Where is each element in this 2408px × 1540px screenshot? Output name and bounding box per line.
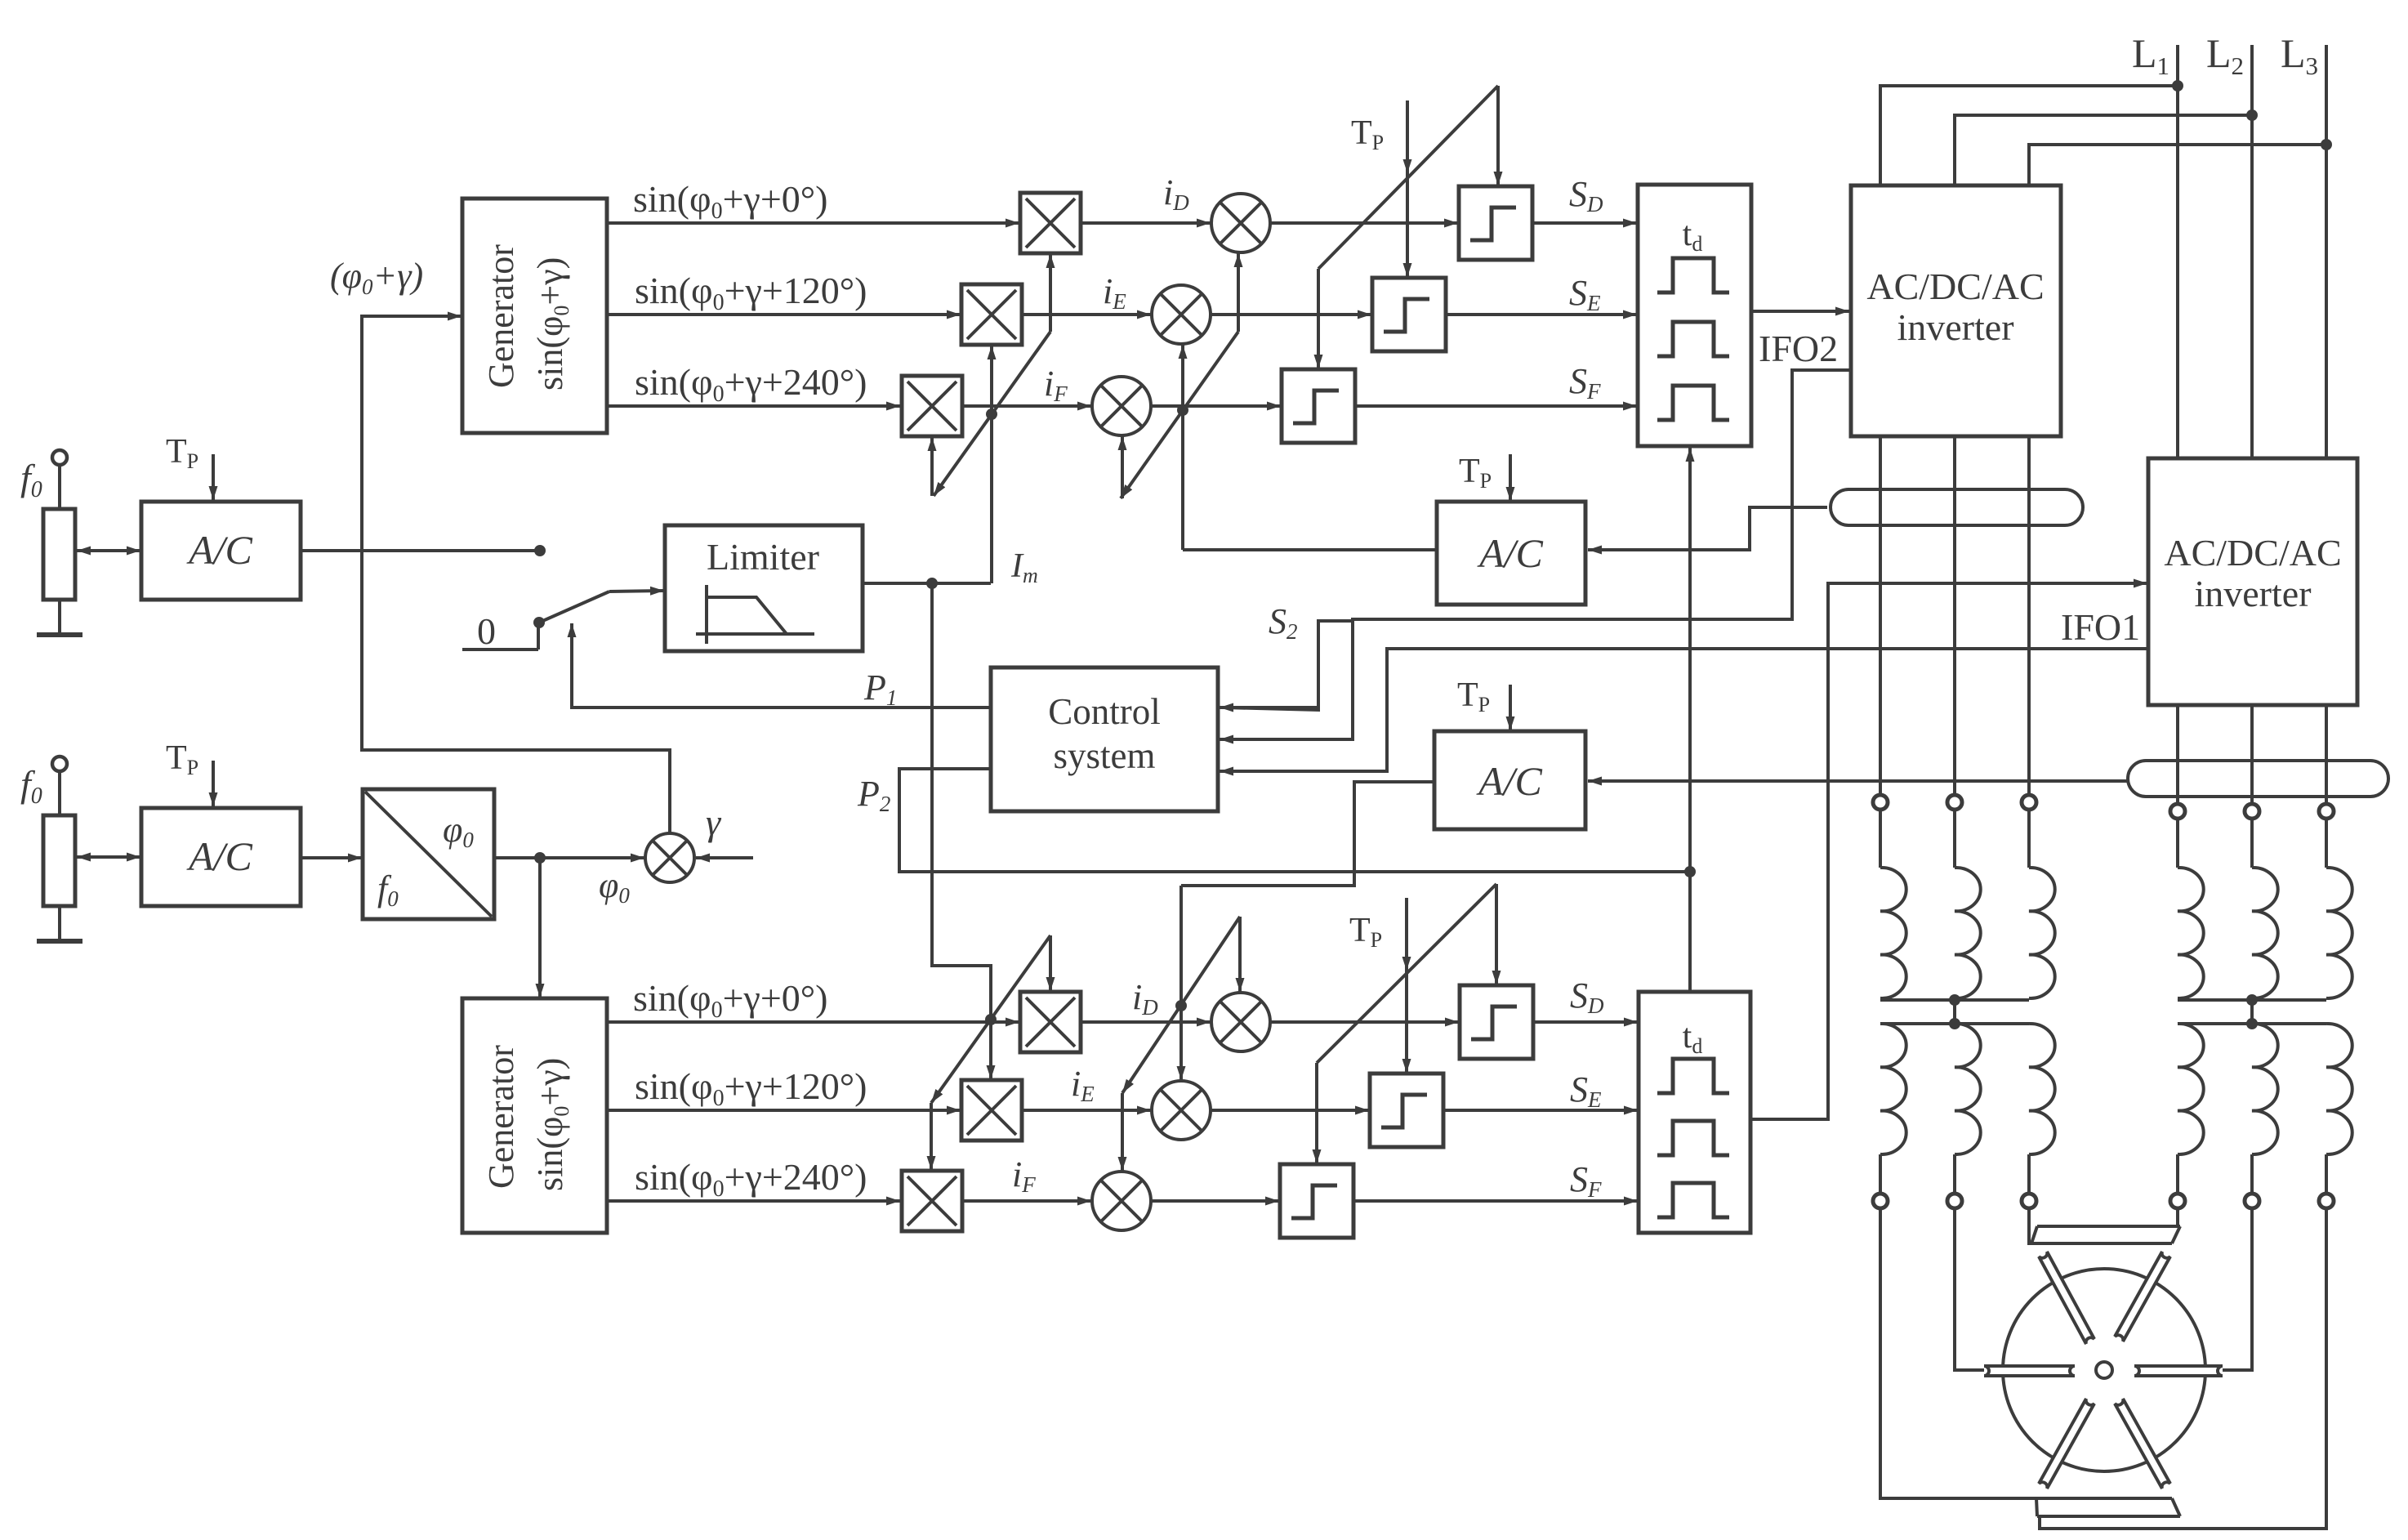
wire — [1879, 810, 1882, 868]
svg-text:Control: Control — [1048, 691, 1161, 732]
A/C converter — [141, 808, 301, 906]
wire — [2250, 819, 2254, 868]
wire inverter1 phase A to L1 — [1880, 86, 2178, 185]
svg-text:Limiter: Limiter — [707, 536, 819, 578]
wire left phase1 to motor bottom bar — [1880, 1208, 2039, 1498]
stator winding lower 4 — [2178, 1024, 2204, 1154]
dead-time block td1 — [1638, 185, 1751, 446]
motor hub — [2096, 1362, 2112, 1378]
wire Im stub into MX3 — [930, 437, 934, 496]
Generator 1 sin(phi0+gamma) — [462, 199, 607, 433]
svg-text:SD: SD — [1570, 975, 1604, 1018]
comparator SF1 — [1282, 369, 1355, 443]
svg-text:sin(φ0+γ+0°): sin(φ0+γ+0°) — [633, 178, 828, 224]
svg-text:sin(φ0+γ+120°): sin(φ0+γ+120°) — [635, 270, 867, 315]
svg-text:SF: SF — [1570, 1159, 1602, 1202]
ground bar — [37, 939, 82, 944]
wire sin(phi0+gamma+0) row — [607, 221, 1019, 225]
multiplier (circle-X) ME — [1152, 1081, 1211, 1140]
wire — [1953, 1154, 1956, 1194]
stator winding lower 6 — [2326, 1024, 2352, 1154]
wire sin(phi0+gamma+0) row — [607, 1020, 1019, 1024]
svg-text:L3: L3 — [2281, 30, 2318, 80]
svg-text:TP: TP — [166, 739, 198, 779]
svg-text:A/C: A/C — [1477, 530, 1543, 576]
wire Im vertical MX2 lower — [989, 966, 992, 1079]
wire Im stub into MX1 lower — [1049, 935, 1052, 991]
wire inverter2 output phase B down — [2250, 705, 2254, 804]
svg-text:iD: iD — [1163, 172, 1189, 215]
stator winding lower 3 — [2029, 1024, 2055, 1154]
terminal f0 — [52, 450, 67, 465]
wire current sensor 1 to A/C3 — [1591, 507, 1827, 550]
wire SE1 to td1 — [1446, 313, 1637, 316]
svg-text:iF: iF — [1012, 1154, 1036, 1197]
f0-to-phi0 converter — [363, 789, 494, 919]
wire MX1 to MD — [1081, 221, 1211, 225]
svg-text:(φ0+γ): (φ0+γ) — [330, 256, 423, 299]
wire carrier into SD1 — [1496, 86, 1500, 185]
svg-text:P1: P1 — [863, 667, 897, 710]
wire — [2325, 819, 2328, 868]
limiter glyph — [696, 585, 814, 644]
svg-text:P2: P2 — [857, 774, 890, 816]
wire TP vertical lower (into SE2) — [1405, 898, 1408, 1073]
multiplier (circle-X) ME — [1152, 285, 1211, 344]
node P2 to td blocks — [1684, 866, 1696, 877]
wire Im stub into MX1 — [1049, 254, 1052, 332]
node on ME vertical lower — [1175, 1000, 1187, 1011]
motor bottom bar — [2036, 1498, 2180, 1516]
wire feedback stub into MF — [1121, 436, 1124, 498]
multiplier (box-X) MX3 — [902, 1171, 962, 1231]
svg-text:SD: SD — [1569, 174, 1603, 216]
star bus upper right — [2178, 998, 2326, 1002]
wire sin(phi0+gamma+240) row — [607, 404, 900, 408]
terminal f0 — [52, 757, 67, 771]
node switch contact A — [534, 545, 546, 556]
wire inverter1 output phase B down — [1953, 436, 1956, 795]
sawtooth carrier ramp lower — [1317, 884, 1496, 1063]
wire inverter1 output phase A down — [1879, 436, 1882, 795]
wire S2 line from inverter 1 — [1225, 370, 1851, 739]
wire Im down to lower modulators — [932, 583, 991, 1077]
wire MD to comparator SD — [1270, 221, 1458, 225]
svg-text:f0: f0 — [20, 457, 42, 502]
stator winding upper 6 — [2326, 868, 2352, 998]
terminal node lower winding 5 — [2245, 1194, 2259, 1208]
svg-text:L1: L1 — [2132, 30, 2169, 80]
diagonal bus box-X group upper — [934, 332, 1050, 496]
AC/DC/AC inverter 2 — [2148, 458, 2357, 705]
svg-text:A/C: A/C — [1476, 758, 1542, 804]
diagonal bus circle-X group upper — [1121, 332, 1238, 498]
svg-text:Generator: Generator — [481, 1045, 521, 1189]
terminal node upper winding 6 — [2319, 804, 2334, 819]
wire left phase3 to motor top bar — [2029, 1208, 2031, 1243]
wire inverter1 phase C to L3 — [2029, 145, 2326, 185]
wire carrier into SD2 — [1495, 884, 1498, 984]
svg-text:AC/DC/AC: AC/DC/AC — [2164, 532, 2341, 574]
current sensor loop 1 — [1831, 489, 2083, 525]
svg-text:SE: SE — [1569, 273, 1601, 315]
node on ME vertical — [1177, 404, 1188, 416]
wire star link left — [1953, 1000, 1956, 1024]
stator winding upper 3 — [2029, 868, 2055, 998]
svg-text:iE: iE — [1071, 1064, 1095, 1106]
wire inverter2 status to control input 3 — [1225, 649, 2147, 771]
star bus lower right — [2178, 1022, 2326, 1025]
TP arrow into ramp lower — [1405, 915, 1408, 971]
potentiometer (setpoint) — [43, 815, 75, 906]
wire MX3 to MF — [962, 1199, 1091, 1203]
svg-text:AC/DC/AC: AC/DC/AC — [1866, 266, 2044, 307]
A/C converter 3 — [1437, 502, 1585, 605]
A/C converter — [141, 502, 301, 600]
comparator SF2 — [1280, 1164, 1353, 1238]
stator winding upper 2 — [1955, 868, 1981, 998]
wire inverter2 output phase C down — [2325, 705, 2328, 804]
svg-text:Generator: Generator — [481, 244, 521, 388]
wire P2 — [899, 769, 1690, 872]
diagonal bus circle-X group lower — [1122, 917, 1240, 1093]
wire Im stub into MX3 lower — [930, 1103, 933, 1170]
svg-text:inverter: inverter — [2194, 573, 2311, 614]
A/C converter 4 — [1434, 731, 1585, 829]
terminal node upper winding 1 — [1873, 795, 1888, 810]
wire — [2027, 810, 2031, 868]
motor circle — [2003, 1269, 2205, 1471]
svg-text:IFO2: IFO2 — [1759, 328, 1838, 369]
svg-text:sin(φ0+γ): sin(φ0+γ) — [530, 1058, 573, 1191]
wire — [58, 771, 61, 815]
wire feedback stub into MD lower — [1238, 917, 1242, 992]
motor top bar — [2031, 1226, 2180, 1243]
TP arrow — [212, 761, 215, 806]
wire feedback stub into MF lower — [1121, 1093, 1124, 1171]
comparator SE1 — [1372, 278, 1446, 351]
TP arrow — [212, 454, 215, 500]
svg-text:sin(φ0+γ+120°): sin(φ0+γ+120°) — [635, 1065, 867, 1111]
terminal node lower winding 1 — [1873, 1194, 1888, 1208]
svg-text:sin(φ0+γ+0°): sin(φ0+γ+0°) — [633, 977, 828, 1023]
wire TP vertical upper (into SE1) — [1406, 100, 1409, 277]
potentiometer (setpoint) — [43, 509, 75, 600]
comparator SE2 — [1370, 1074, 1443, 1147]
diagonal bus box-X group lower — [931, 935, 1050, 1103]
stator winding upper 4 — [2178, 868, 2204, 998]
svg-text:SF: SF — [1569, 361, 1601, 404]
wire — [58, 906, 61, 941]
wire MD to comparator SD lower — [1270, 1020, 1459, 1024]
wire sin(phi0+gamma+240) row — [607, 1199, 900, 1203]
svg-text:inverter: inverter — [1897, 306, 2013, 348]
svg-text:γ: γ — [706, 801, 722, 843]
svg-text:A/C: A/C — [186, 833, 252, 879]
TP arrow into ramp upper — [1406, 123, 1409, 173]
comparator SD2 — [1460, 985, 1533, 1059]
node phi0 branch — [534, 852, 546, 864]
star bus upper left — [1880, 998, 2029, 1002]
wire — [2176, 1154, 2179, 1194]
switch blade — [539, 591, 609, 623]
wire phi0 to Generator 2 — [538, 858, 542, 998]
motor blade lower-left — [2039, 1399, 2094, 1489]
svg-text:Im: Im — [1010, 547, 1038, 587]
stator winding lower 5 — [2252, 1024, 2278, 1154]
TP arrow A/C4 — [1509, 685, 1512, 730]
wire SD1 to td1 — [1532, 221, 1637, 225]
wire feedback stub into MD — [1237, 253, 1240, 332]
stator winding upper 5 — [2252, 868, 2278, 998]
wire sin(phi0+gamma+120) row — [607, 313, 961, 316]
wire td1 output IFO2 to inverter 1 — [1751, 310, 1849, 313]
wire — [1879, 1154, 1882, 1194]
wire MF to comparator SF — [1151, 404, 1281, 408]
wire td2 output IFO1 to inverter 2 — [1750, 583, 2132, 1119]
wire star link right — [2250, 1000, 2254, 1024]
wire MX3 to MF — [962, 404, 1091, 408]
multiplier (box-X) MX1 — [1020, 193, 1081, 253]
multiplier (box-X) MX2 — [961, 284, 1022, 345]
svg-text:TP: TP — [1351, 114, 1384, 154]
wire MX1 to MD — [1081, 1020, 1211, 1024]
multiplier (box-X) MX1 — [1020, 992, 1081, 1052]
svg-text:system: system — [1053, 735, 1155, 776]
wire carrier into SF1 — [1317, 269, 1320, 368]
svg-text:L2: L2 — [2206, 30, 2244, 80]
svg-text:S2: S2 — [1269, 601, 1298, 644]
mains line L3 — [2325, 45, 2328, 458]
motor blade upper-left — [2039, 1252, 2094, 1344]
mains line L1 — [2176, 45, 2179, 458]
wire S2 into control input 1 — [1224, 621, 1353, 710]
wire ME to comparator SE lower — [1211, 1109, 1369, 1112]
wire right phase2 to motor right blade — [2223, 1208, 2252, 1370]
Control system block — [991, 667, 1218, 811]
wire current sensor 2 to A/C4 — [1591, 779, 2128, 783]
motor blade upper-right — [2115, 1252, 2170, 1341]
svg-text:TP: TP — [166, 433, 198, 473]
wire right phase3 to motor bottom bar — [2040, 1208, 2326, 1529]
motor blade lower-right — [2115, 1399, 2170, 1489]
wire pot-to-A/C (double arrow) — [77, 549, 106, 552]
svg-text:TP: TP — [1349, 912, 1382, 952]
svg-text:f0: f0 — [20, 763, 42, 809]
multiplier (circle-X) MD — [1211, 993, 1270, 1051]
wire ME to comparator SE — [1211, 313, 1371, 316]
wire inverter1 output phase C down — [2027, 436, 2031, 795]
stator winding lower 1 — [1880, 1024, 1906, 1154]
terminal node upper winding 4 — [2170, 804, 2185, 819]
wire MX2 to ME — [1022, 313, 1151, 316]
wire — [2176, 819, 2179, 868]
svg-text:TP: TP — [1459, 453, 1492, 493]
multiplier (box-X) MX3 — [902, 376, 962, 436]
wire P2 down into td2 — [1688, 872, 1692, 992]
wire carrier into SF2 — [1315, 1063, 1318, 1163]
multiplier (circle-X) MF — [1092, 1172, 1151, 1230]
wire left phase2 to motor left blade — [1955, 1208, 1984, 1370]
wire — [2325, 1154, 2328, 1194]
multiplier (circle-X) MF — [1092, 377, 1151, 435]
wire SE2 to td2 — [1443, 1109, 1638, 1112]
wire P1 — [572, 706, 991, 709]
wire gamma input — [696, 856, 753, 859]
wire MX2 to ME — [1022, 1109, 1151, 1112]
svg-text:0: 0 — [477, 610, 496, 652]
multiplier (box-X) MX2 — [961, 1080, 1022, 1140]
svg-text:sin(φ0+γ): sin(φ0+γ) — [530, 257, 573, 391]
terminal node lower winding 2 — [1947, 1194, 1962, 1208]
svg-text:iF: iF — [1044, 364, 1068, 406]
wire A/C3 feedback output — [1183, 548, 1437, 551]
wire — [2027, 1154, 2031, 1194]
svg-text:sin(φ0+γ+240°): sin(φ0+γ+240°) — [635, 361, 867, 407]
wire — [58, 600, 61, 635]
TP arrow A/C3 — [1509, 454, 1512, 501]
wire SF2 to td2 — [1353, 1199, 1638, 1203]
wire Im output of Limiter — [863, 582, 991, 585]
wire (phi0+gamma) to Generator 1 — [362, 316, 670, 833]
wire Im vertical MX2 (to Im line) — [990, 346, 993, 583]
Generator 2 sin(phi0+gamma) — [462, 998, 607, 1233]
wire blade to Limiter — [609, 591, 664, 591]
node 0 contact — [533, 617, 545, 628]
wire sin(phi0+gamma+120) row — [607, 1109, 961, 1112]
Limiter block — [665, 525, 863, 651]
multiplier (circle-X) MD — [1211, 194, 1270, 252]
wire SD2 to td2 — [1533, 1020, 1638, 1024]
svg-text:iD: iD — [1132, 977, 1158, 1020]
wire A/C1 output — [301, 549, 540, 552]
svg-text:TP: TP — [1457, 676, 1490, 716]
wire A/C2 output — [301, 856, 362, 859]
svg-text:SE: SE — [1570, 1069, 1602, 1112]
node Im branch — [926, 578, 938, 589]
terminal node lower winding 6 — [2319, 1194, 2334, 1208]
ground bar — [37, 632, 82, 637]
wire pot-to-A/C (double arrow) — [77, 855, 106, 859]
wire MF to comparator SF lower — [1151, 1199, 1279, 1203]
wire phi0 — [494, 856, 644, 859]
mains line L2 — [2250, 45, 2254, 458]
terminal node lower winding 4 — [2170, 1194, 2185, 1208]
svg-text:sin(φ0+γ+240°): sin(φ0+γ+240°) — [635, 1156, 867, 1202]
terminal node upper winding 2 — [1947, 795, 1962, 810]
stator winding upper 1 — [1880, 868, 1906, 998]
wire P2 up into td1 — [1688, 448, 1692, 872]
terminal node upper winding 3 — [2022, 795, 2036, 810]
comparator SD1 — [1459, 186, 1532, 260]
svg-text:iE: iE — [1103, 271, 1126, 314]
AC/DC/AC inverter 1 — [1851, 185, 2061, 436]
wire inverter2 output phase A down — [2176, 705, 2179, 804]
wire — [2250, 1154, 2254, 1194]
wire — [1953, 810, 1956, 868]
svg-text:φ0: φ0 — [599, 865, 630, 908]
wire right phase1 to motor top bar — [2178, 1208, 2180, 1226]
node on MX2 vertical — [986, 408, 997, 420]
wire A/C4 feedback output — [1181, 782, 1434, 886]
terminal node lower winding 3 — [2022, 1194, 2036, 1208]
wire feedback vertical ME lower (to A/C4 line) — [1179, 886, 1183, 1080]
sawtooth carrier ramp upper — [1318, 86, 1498, 269]
multiplier (circle-X) phi0+gamma — [645, 833, 694, 882]
wire inverter1 phase B to L2 — [1955, 115, 2252, 185]
current sensor loop 2 — [2128, 761, 2388, 797]
switch 0 contact — [462, 648, 538, 651]
svg-text:IFO1: IFO1 — [2061, 606, 2140, 648]
dead-time block td2 — [1639, 992, 1750, 1233]
motor blade left — [1984, 1366, 2075, 1376]
star bus lower left — [1880, 1022, 2029, 1025]
stator winding lower 2 — [1955, 1024, 1981, 1154]
svg-text:A/C: A/C — [186, 527, 252, 573]
wire — [58, 465, 61, 509]
wire feedback vertical ME (to A/C3 line) — [1181, 345, 1184, 550]
wire P1 actuation arrow — [570, 623, 573, 709]
node on MX2 vertical lower — [985, 1014, 997, 1025]
wire SF1 to td1 — [1355, 404, 1637, 408]
motor blade right — [2134, 1366, 2223, 1376]
terminal node upper winding 5 — [2245, 804, 2259, 819]
